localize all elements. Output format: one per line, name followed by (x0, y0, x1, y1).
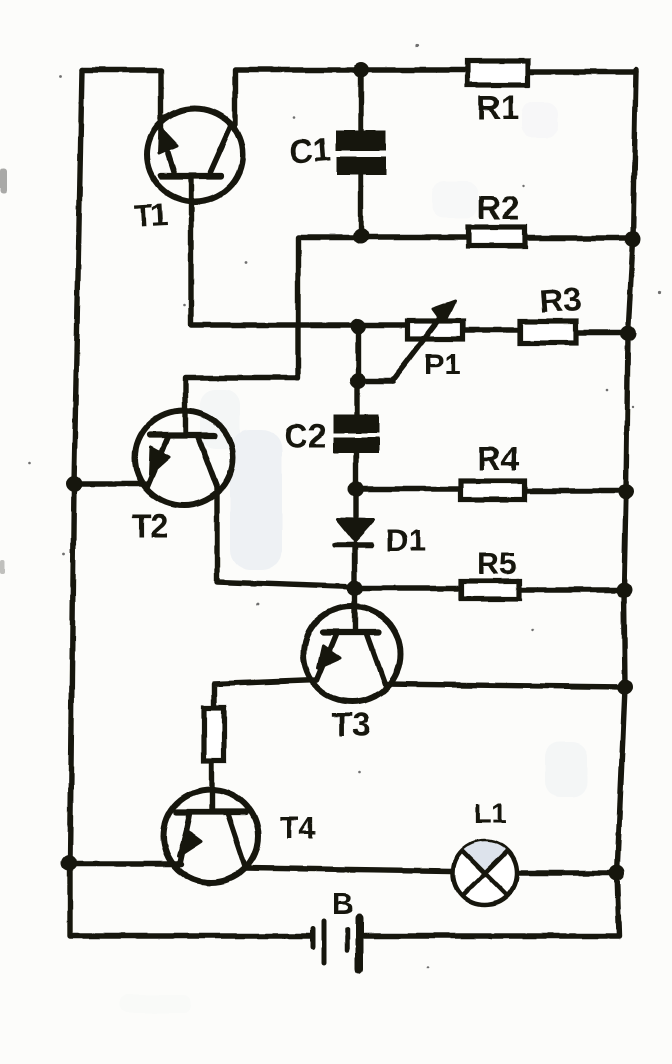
svg-text:C2: C2 (284, 417, 326, 454)
svg-text:T1: T1 (133, 197, 169, 234)
svg-text:R4: R4 (477, 440, 520, 477)
svg-text:R2: R2 (477, 189, 519, 226)
svg-text:R1: R1 (477, 89, 519, 126)
svg-text:C1: C1 (288, 130, 333, 170)
svg-text:R5: R5 (477, 546, 517, 581)
svg-text:D1: D1 (386, 523, 426, 558)
svg-text:T3: T3 (332, 706, 371, 743)
svg-text:R3: R3 (538, 280, 583, 320)
svg-text:L1: L1 (474, 798, 507, 829)
svg-text:B: B (332, 888, 354, 921)
svg-text:P1: P1 (424, 348, 461, 381)
svg-text:T2: T2 (132, 508, 168, 544)
svg-text:T4: T4 (280, 812, 315, 845)
